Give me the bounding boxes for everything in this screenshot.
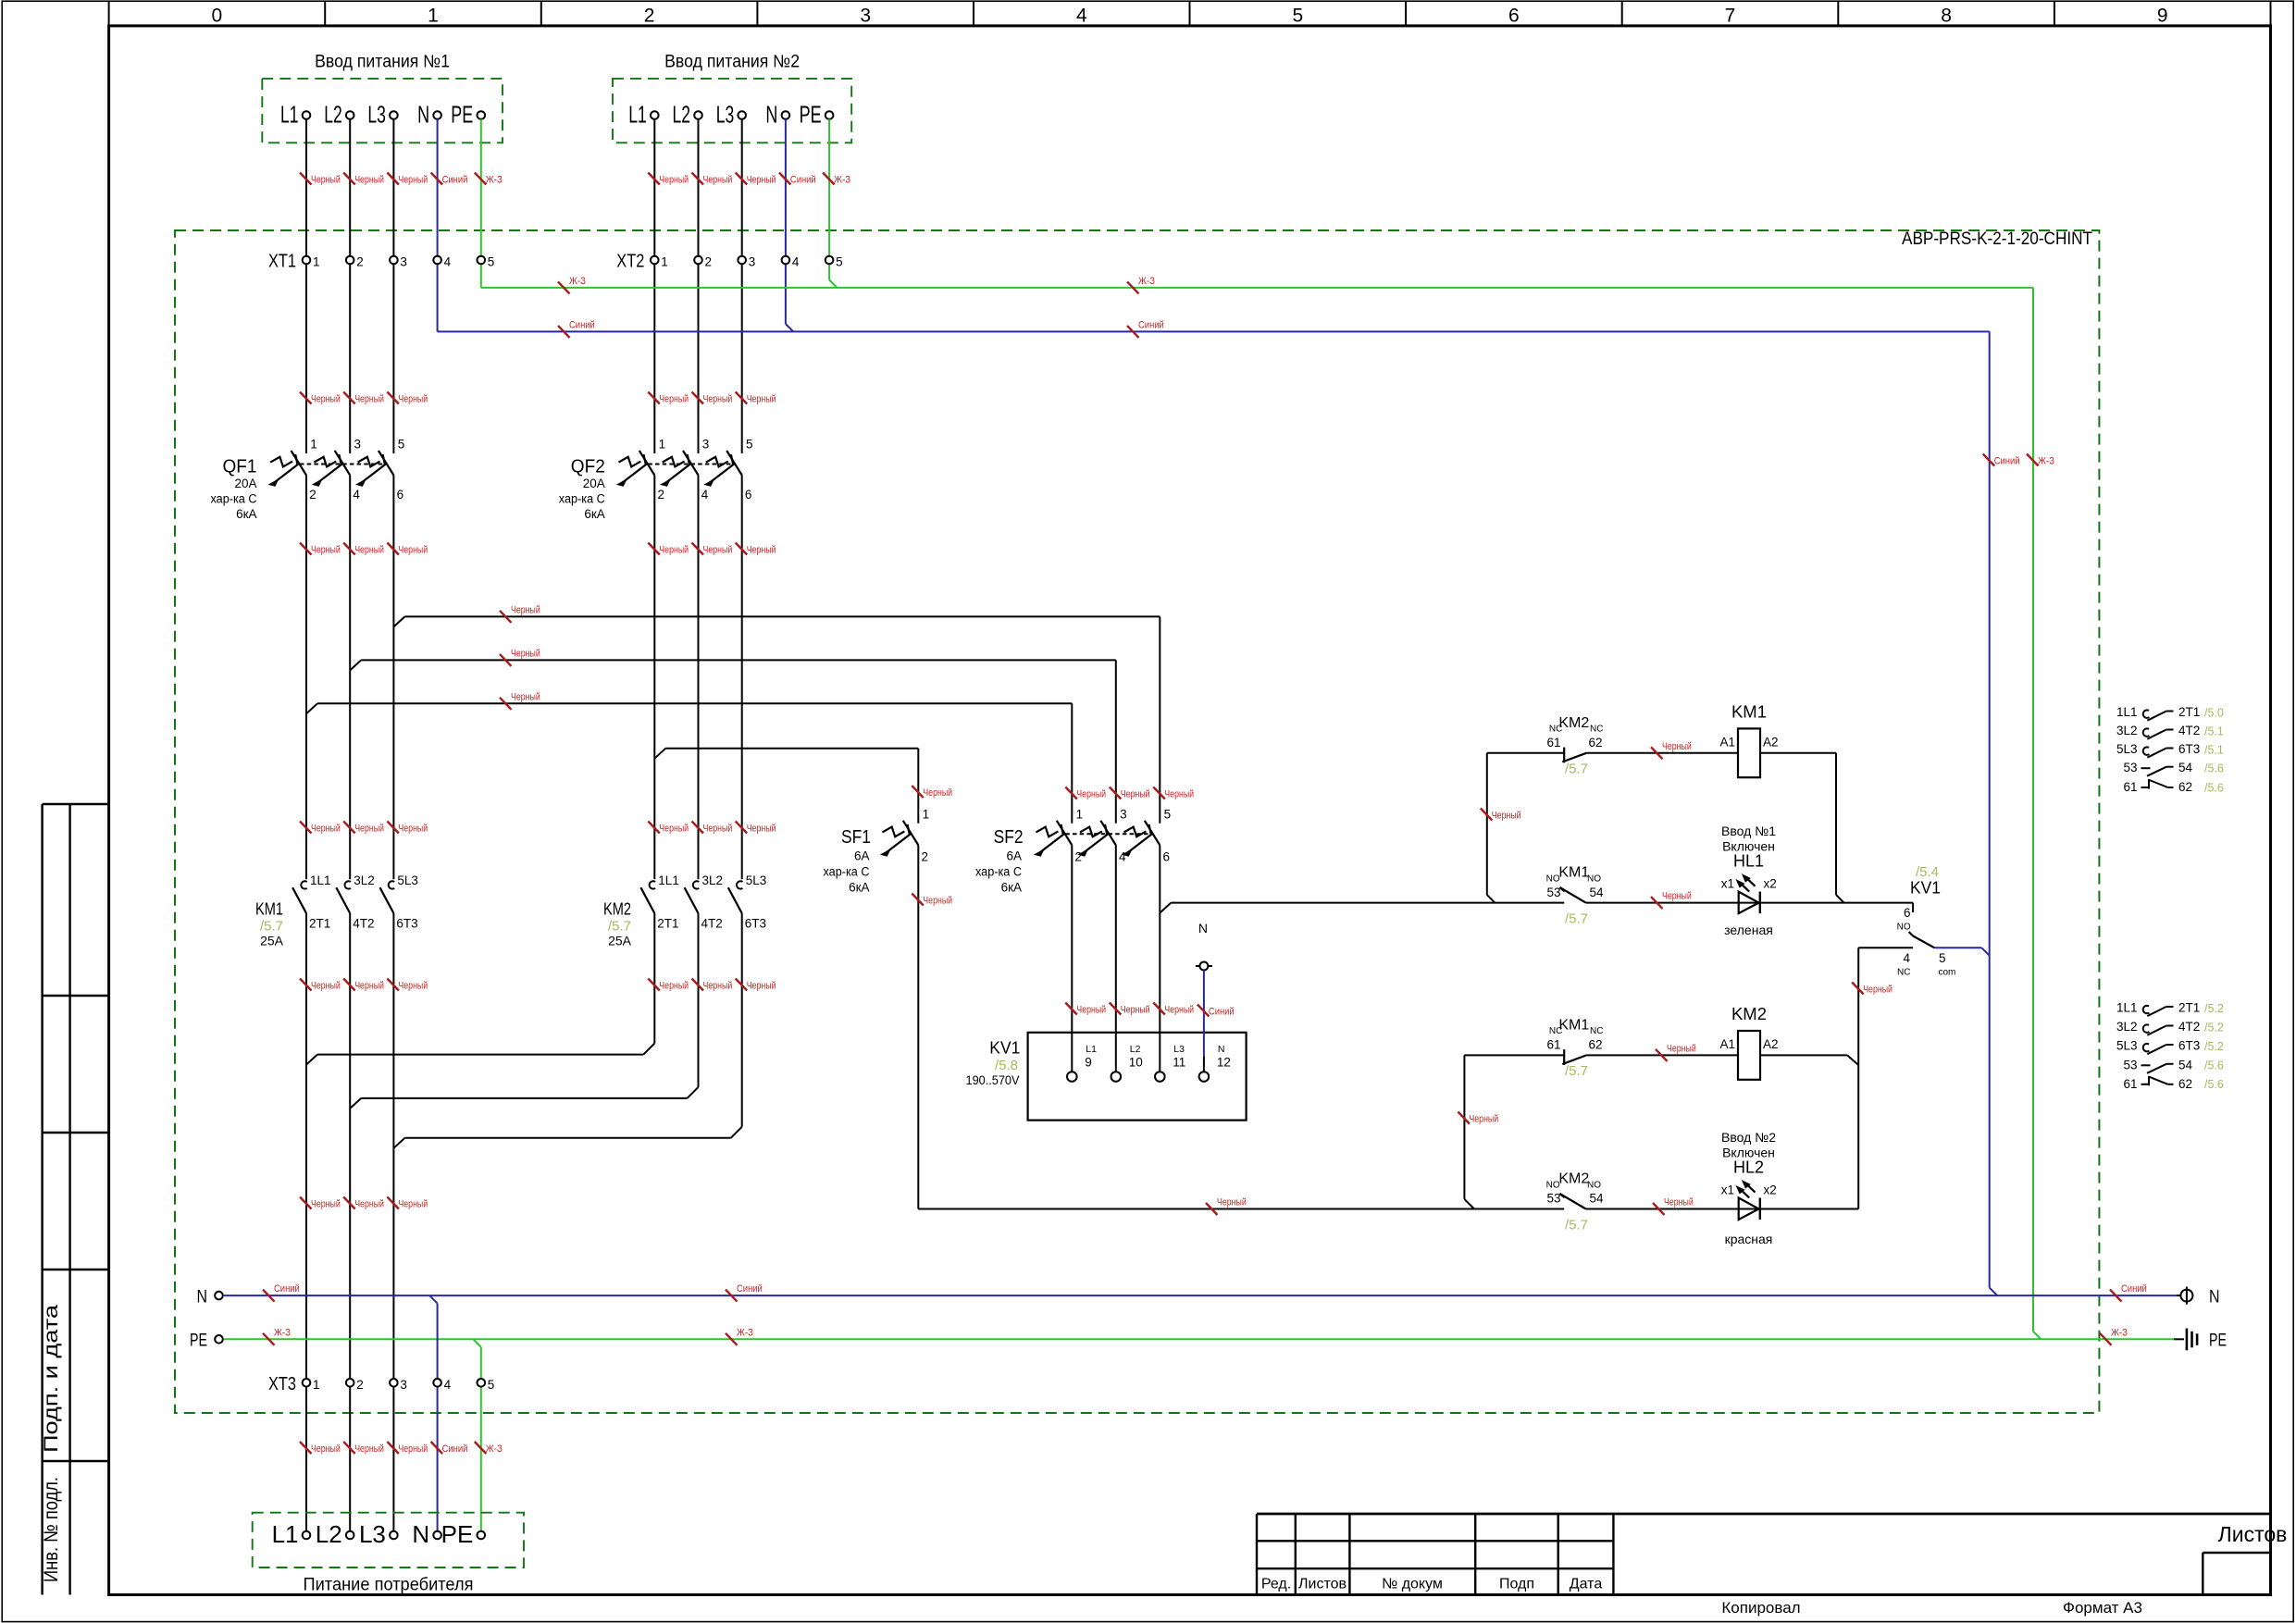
- wire label Черный: [343, 543, 384, 556]
- wire label Черный: [1651, 741, 1692, 760]
- svg-text:62: 62: [2178, 780, 2192, 794]
- consumer terminal L3: [359, 1520, 398, 1548]
- svg-text:54: 54: [2178, 1058, 2193, 1072]
- breaker SF2 pole 3: [1122, 807, 1171, 863]
- wire feed bus L2->SF2.3: [350, 660, 361, 670]
- svg-text:25А: 25А: [260, 934, 284, 948]
- labels KM1 NC 61 62: [1546, 1017, 1603, 1079]
- svg-text:Черный: Черный: [354, 981, 384, 992]
- svg-text:53: 53: [2123, 761, 2137, 774]
- svg-text:12: 12: [1217, 1056, 1231, 1070]
- svg-text:хар-ка С: хар-ка С: [975, 865, 1022, 879]
- svg-text:HL2: HL2: [1733, 1158, 1764, 1177]
- svg-text:Дата: Дата: [1570, 1577, 1603, 1592]
- cross-ref KM1 contact 1L1-2T1: [2116, 705, 2224, 721]
- svg-text:Листов: Листов: [2218, 1522, 2288, 1546]
- svg-text:9: 9: [2157, 6, 2168, 27]
- svg-text:7: 7: [1725, 6, 1736, 27]
- svg-text:5: 5: [1939, 951, 1946, 965]
- wire label Черный: [300, 1197, 341, 1210]
- svg-text:Черный: Черный: [703, 175, 733, 186]
- svg-text:3: 3: [400, 255, 407, 269]
- breaker QF1 pole 2: [312, 438, 361, 502]
- terminal strip XT1: [268, 252, 494, 272]
- svg-text:6: 6: [397, 488, 404, 502]
- wire label Черный: [1653, 1197, 1694, 1216]
- wire label Синий: [1198, 1005, 1235, 1018]
- svg-text:L3: L3: [359, 1520, 386, 1548]
- terminal Ввод питания №2-L2: [673, 101, 702, 129]
- breaker QF2 pole 3: [703, 438, 752, 502]
- wire KM1 output 3 down to consumer: [392, 913, 394, 1531]
- svg-text:5: 5: [1164, 807, 1172, 821]
- svg-text:Ж-З: Ж-З: [1138, 276, 1155, 287]
- terminal Ввод питания №1-PE: [451, 101, 485, 129]
- svg-text:4: 4: [701, 488, 709, 502]
- wire label Черный: [692, 173, 733, 186]
- wire NC drop down to HL2 row: [1857, 948, 1859, 1208]
- svg-text:6: 6: [1163, 849, 1171, 863]
- wire label Черный: [648, 173, 689, 186]
- wire label Черный: [300, 173, 341, 186]
- svg-text:Подп. и дата: Подп. и дата: [41, 1305, 62, 1453]
- breaker SF2 pole 1: [1034, 807, 1083, 863]
- svg-text:Черный: Черный: [747, 824, 776, 835]
- wire KM1 output 2 down to consumer: [349, 913, 351, 1531]
- svg-text:6: 6: [1904, 906, 1911, 920]
- svg-text:3: 3: [354, 438, 362, 452]
- svg-text:x1: x1: [1721, 877, 1734, 891]
- svg-text:Синий: Синий: [737, 1283, 763, 1295]
- wire label Черный: [1651, 891, 1692, 910]
- wire label Синий: [1127, 319, 1164, 338]
- svg-text:10: 10: [1129, 1056, 1143, 1070]
- wire label Синий: [558, 319, 595, 338]
- svg-text:Синий: Синий: [442, 1443, 468, 1455]
- svg-text:Черный: Черный: [1863, 985, 1893, 996]
- wire label Ж-З: [823, 173, 850, 186]
- wire label Ж-З: [558, 276, 586, 294]
- branch SF2 pin6 to indication row: [1160, 903, 1171, 913]
- breaker QF2 pole 1: [616, 438, 665, 502]
- svg-text:6T3: 6T3: [396, 917, 417, 931]
- wire label Черный: [736, 392, 776, 405]
- svg-text:N: N: [417, 101, 429, 129]
- wire label Черный: [1110, 1003, 1150, 1016]
- svg-text:Черный: Черный: [703, 394, 733, 405]
- svg-text:53: 53: [1546, 886, 1560, 899]
- svg-text:4: 4: [1119, 849, 1126, 863]
- svg-text:HL1: HL1: [1733, 852, 1764, 871]
- KV1 terminal L1/9: [1067, 1044, 1097, 1082]
- terminal PE right (earth bars): [2174, 1329, 2227, 1351]
- svg-text:61: 61: [2123, 780, 2137, 794]
- wire N tap (blue) down to KV1 term 12: [1203, 971, 1205, 1057]
- wire label Черный: [692, 543, 733, 556]
- svg-text:Черный: Черный: [659, 394, 689, 405]
- wire label Черный: [300, 1442, 341, 1455]
- svg-text:Черный: Черный: [659, 981, 689, 992]
- wire link bus L2 (KM1 out to KM2 out): [350, 1098, 361, 1109]
- svg-text:3: 3: [400, 1378, 407, 1392]
- cross-ref KM2 contact 1L1-2T1: [2116, 1001, 2224, 1017]
- KV1 terminal N/12: [1199, 1044, 1231, 1082]
- svg-text:2: 2: [658, 488, 665, 502]
- PE rail (green): [224, 1338, 2174, 1340]
- svg-text:3L2: 3L2: [702, 873, 724, 887]
- svg-text:Синий: Синий: [1138, 319, 1164, 330]
- svg-text:Черный: Черный: [1662, 741, 1692, 752]
- contactor KM2 main contact 1L1-2T1: [640, 873, 678, 931]
- svg-text:Ввод №2: Ввод №2: [1721, 1130, 1776, 1145]
- svg-text:2: 2: [705, 255, 713, 269]
- svg-text:Питание потребителя: Питание потребителя: [304, 1576, 474, 1595]
- wire input1 N (blue) vertical: [437, 119, 439, 332]
- svg-text:KV1: KV1: [1910, 878, 1941, 898]
- svg-text:61: 61: [1546, 1038, 1560, 1052]
- branch N rail down to XT3 (blue): [429, 1295, 438, 1304]
- svg-text:Ред.: Ред.: [1261, 1577, 1291, 1592]
- svg-text:KM2: KM2: [1731, 1004, 1767, 1023]
- svg-text:KM1: KM1: [1731, 702, 1767, 722]
- svg-text:Черный: Черный: [1667, 1043, 1696, 1054]
- wire QF1 pole 1 output: [305, 476, 307, 880]
- wire KM2 output 3 down to link bus: [741, 913, 743, 1127]
- svg-text:/5.8: /5.8: [995, 1058, 1018, 1073]
- power input box Ввод питания №1: [262, 79, 503, 142]
- svg-text:6А: 6А: [1006, 849, 1022, 863]
- wire feed bus L1(input2)->SF1: [654, 749, 665, 759]
- terminal Ввод питания №1-N: [417, 101, 441, 129]
- svg-text:54: 54: [2178, 761, 2193, 774]
- wire label Черный: [500, 691, 540, 710]
- wire label Черный: [912, 894, 952, 907]
- svg-text:Черный: Черный: [311, 981, 341, 992]
- wire label Черный: [1206, 1197, 1247, 1216]
- svg-text:NO: NO: [1546, 874, 1560, 885]
- wire PE bus horizontal (green): [481, 287, 2033, 289]
- svg-text:L3: L3: [716, 101, 735, 129]
- svg-text:QF2: QF2: [571, 457, 605, 477]
- svg-text:2T1: 2T1: [2178, 705, 2200, 719]
- svg-text:62: 62: [1588, 736, 1602, 750]
- svg-text:L3: L3: [1173, 1044, 1185, 1055]
- svg-text:Ж-З: Ж-З: [274, 1327, 291, 1338]
- wire label Черный: [300, 822, 341, 835]
- wire label Черный: [648, 392, 689, 405]
- wire PE riser right (green): [2032, 288, 2034, 1332]
- wire left drop (coil row to NO row): [1486, 753, 1488, 895]
- wire label Синий: [431, 1442, 468, 1455]
- KV1 terminal L2/10: [1111, 1044, 1143, 1082]
- svg-text:Черный: Черный: [659, 545, 689, 556]
- wire input1 L3 (black): [392, 119, 394, 453]
- wire label Черный: [648, 822, 689, 835]
- left stamp column: [43, 804, 109, 1595]
- svg-text:A2: A2: [1763, 1037, 1779, 1051]
- svg-text:Черный: Черный: [354, 1199, 384, 1210]
- svg-text:5: 5: [1292, 6, 1303, 27]
- labels KM1 NO 53 54: [1546, 865, 1604, 927]
- svg-text:Формат А3: Формат А3: [2063, 1599, 2142, 1617]
- wire label Черный: [1458, 1112, 1498, 1125]
- wire label Ж-З: [726, 1327, 753, 1345]
- svg-text:L2: L2: [1130, 1044, 1141, 1055]
- wire label Черный: [387, 979, 428, 992]
- wire label Ж-З: [2100, 1327, 2128, 1345]
- svg-text:2: 2: [356, 1378, 364, 1392]
- svg-text:1: 1: [661, 255, 668, 269]
- relay contact KV1 (6 NO / 4 NC / 5 com): [1909, 932, 1935, 948]
- consumer terminal L2: [316, 1520, 354, 1548]
- svg-text:/5.2: /5.2: [2204, 1002, 2224, 1015]
- cross-ref KM2 contact 61-62: [2123, 1076, 2223, 1091]
- svg-text:Синий: Синий: [790, 175, 816, 186]
- svg-text:KV1: KV1: [989, 1038, 1020, 1058]
- svg-text:Черный: Черный: [398, 175, 428, 186]
- svg-text:Синий: Синий: [1994, 456, 2020, 467]
- wire label Черный: [1153, 787, 1194, 800]
- svg-text:1L1: 1L1: [2116, 705, 2138, 719]
- wire label Черный: [387, 1197, 428, 1210]
- labels KM2 NC 61 62: [1546, 715, 1603, 777]
- svg-text:N: N: [197, 1287, 208, 1307]
- svg-text:5L3: 5L3: [746, 873, 767, 887]
- svg-text:Черный: Черный: [311, 1443, 341, 1455]
- svg-text:Ж-З: Ж-З: [486, 1443, 503, 1455]
- labels KV1 device: [966, 1038, 1021, 1088]
- svg-text:Черный: Черный: [354, 394, 384, 405]
- consumer terminal N: [412, 1520, 441, 1548]
- svg-text:Черный: Черный: [311, 175, 341, 186]
- svg-text:6T3: 6T3: [2178, 742, 2200, 756]
- svg-text:L2: L2: [316, 1520, 342, 1548]
- svg-text:1: 1: [313, 1378, 320, 1392]
- svg-text:хар-ка С: хар-ка С: [559, 492, 605, 506]
- wire label Черный: [1065, 1003, 1106, 1016]
- wire label Черный: [736, 173, 776, 186]
- svg-text:NC: NC: [1897, 968, 1910, 978]
- wire label Синий: [2110, 1283, 2147, 1302]
- svg-text:6кА: 6кА: [236, 507, 256, 521]
- enclosure АВР-PRS-K-2-1-20-CHINT (dashed): [175, 230, 2099, 1413]
- svg-text:Ввод питания №1: Ввод питания №1: [315, 53, 450, 72]
- svg-text:Черный: Черный: [398, 824, 428, 835]
- wire QF2 pole 3 output: [741, 476, 743, 880]
- terminal Ввод питания №2-PE: [800, 101, 834, 129]
- wire label Черный: [343, 173, 384, 186]
- svg-text:KM2: KM2: [1558, 715, 1589, 731]
- svg-text:1L1: 1L1: [658, 873, 679, 887]
- control breaker SF2 (3-pole): [1065, 833, 1153, 835]
- wire label Ж-З: [475, 173, 503, 186]
- wire KM2 output 2 down to link bus: [698, 913, 700, 1087]
- labels KV1 contact: [1897, 864, 1956, 978]
- svg-text:5L3: 5L3: [2116, 1039, 2138, 1053]
- breaker SF2 pole 2: [1077, 807, 1126, 863]
- svg-text:53: 53: [1546, 1192, 1560, 1206]
- consumer terminal L1: [272, 1520, 311, 1548]
- svg-text:Черный: Черный: [1217, 1197, 1247, 1208]
- svg-text:L3: L3: [367, 101, 386, 129]
- cross-ref KM2 contact 5L3-6T3: [2116, 1039, 2224, 1055]
- svg-text:/5.6: /5.6: [2204, 1078, 2224, 1091]
- svg-text:Черный: Черный: [354, 1443, 384, 1455]
- label KM1: [255, 898, 284, 948]
- svg-text:6: 6: [1508, 6, 1520, 27]
- svg-text:L1: L1: [272, 1520, 299, 1548]
- wire label Черный: [300, 392, 341, 405]
- contactor KM1 main contact 1L1-2T1: [292, 873, 330, 931]
- svg-text:4: 4: [353, 488, 360, 502]
- svg-text:54: 54: [1589, 886, 1604, 899]
- aux contact KM2 NO 53-54: [1559, 1194, 1585, 1209]
- neutral tap point N for KV1: [1196, 921, 1212, 971]
- svg-text:2: 2: [356, 255, 364, 269]
- svg-text:2: 2: [309, 488, 316, 502]
- terminal Ввод питания №2-N: [765, 101, 789, 129]
- coil KM1: [1719, 702, 1778, 778]
- wire SF1 output down and across to HL2 row: [917, 845, 919, 1208]
- cross-ref KM2 contact 53-54: [2123, 1058, 2223, 1073]
- lamp HL2 (red LED): [1735, 1179, 1760, 1220]
- svg-text:L2: L2: [673, 101, 691, 129]
- svg-text:1: 1: [313, 255, 320, 269]
- svg-text:62: 62: [2178, 1077, 2192, 1091]
- wire input1 L2 (black): [349, 119, 351, 453]
- wire label Черный: [648, 543, 689, 556]
- svg-text:53: 53: [2123, 1058, 2137, 1072]
- svg-text:KM1: KM1: [1558, 865, 1589, 881]
- svg-text:x2: x2: [1764, 877, 1777, 891]
- svg-text:Черный: Черный: [1164, 789, 1194, 800]
- svg-text:Ввод питания №2: Ввод питания №2: [664, 53, 800, 72]
- wire input2 L2 (black): [698, 119, 700, 453]
- wire label Черный: [500, 604, 540, 623]
- svg-text:/5.1: /5.1: [2204, 744, 2224, 757]
- title block texts: [1261, 1522, 2288, 1617]
- svg-text:Синий: Синий: [2121, 1283, 2147, 1295]
- svg-text:NC: NC: [1549, 1026, 1562, 1036]
- svg-text:20А: 20А: [583, 477, 605, 490]
- wire label Синий: [431, 173, 468, 186]
- wire N riser right (blue): [1989, 331, 1991, 1287]
- svg-text:5: 5: [398, 438, 405, 452]
- svg-text:1: 1: [1076, 807, 1084, 821]
- wire label Черный: [300, 979, 341, 992]
- svg-text:0: 0: [212, 6, 223, 27]
- svg-text:L1: L1: [280, 101, 299, 129]
- svg-text:3L2: 3L2: [2116, 724, 2138, 737]
- svg-text:61: 61: [1546, 736, 1560, 750]
- svg-text:190..570V: 190..570V: [966, 1072, 1021, 1087]
- contactor KM1 main contact 3L2-4T2: [336, 873, 374, 931]
- svg-text:4: 4: [1903, 951, 1910, 965]
- control breaker SF1 (1-pole): [880, 807, 929, 863]
- terminal N right (circle symbol): [2177, 1287, 2220, 1307]
- svg-text:Черный: Черный: [747, 981, 776, 992]
- svg-text:1: 1: [659, 438, 666, 452]
- wire right drop (A2 to HL1 row): [1835, 753, 1837, 895]
- label SF2: [975, 827, 1024, 895]
- terminal N left: [197, 1287, 223, 1307]
- svg-text:N: N: [765, 101, 777, 129]
- wire QF2 pole 2 output: [698, 476, 700, 880]
- wire KM1 coil row: [1487, 752, 1564, 754]
- labels HL2: [1721, 1130, 1777, 1246]
- wire label Ж-З: [1127, 276, 1155, 294]
- svg-text:A1: A1: [1719, 735, 1735, 749]
- svg-text:4: 4: [792, 255, 800, 269]
- wire feed bus L3->SF2.5: [393, 616, 404, 626]
- svg-text:XT2: XT2: [616, 252, 644, 272]
- svg-text:6кА: 6кА: [584, 507, 604, 521]
- svg-text:Черный: Черный: [311, 1199, 341, 1210]
- label KM2: [603, 898, 632, 948]
- svg-text:Черный: Черный: [511, 648, 540, 659]
- terminal Ввод питания №2-L1: [628, 101, 658, 129]
- svg-text:Черный: Черный: [1662, 891, 1692, 902]
- wire KM2 output 1 down to link bus: [653, 913, 655, 1044]
- cross-ref KM1 contact 3L2-4T2: [2116, 724, 2224, 739]
- svg-text:L1: L1: [1086, 1044, 1097, 1055]
- wire indication row 1 (to KM1 NO and HL1): [1171, 902, 1564, 904]
- svg-text:61: 61: [2123, 1077, 2137, 1091]
- breaker QF1 pole 1: [268, 438, 317, 502]
- wire label Ж-З: [475, 1442, 503, 1455]
- svg-text:XT1: XT1: [268, 252, 296, 272]
- wire label Черный: [1065, 787, 1106, 800]
- wire SF2 outputs down to KV1: [1071, 845, 1073, 1072]
- wire label Черный: [343, 1197, 384, 1210]
- svg-text:Копировал: Копировал: [1721, 1599, 1800, 1617]
- wire label Черный: [692, 822, 733, 835]
- wire label Черный: [1153, 1003, 1194, 1016]
- svg-text:x2: x2: [1764, 1183, 1777, 1196]
- terminal Ввод питания №1-L2: [324, 101, 354, 129]
- wire label Черный: [912, 786, 952, 799]
- wire N bus horizontal (blue): [438, 330, 1990, 332]
- svg-text:4: 4: [444, 255, 452, 269]
- svg-text:6кА: 6кА: [849, 881, 869, 895]
- svg-text:5: 5: [488, 1378, 495, 1392]
- wire label Черный: [736, 979, 776, 992]
- svg-text:4: 4: [1076, 6, 1087, 27]
- svg-text:красная: красная: [1725, 1232, 1773, 1246]
- terminal PE left: [190, 1332, 223, 1351]
- wire KM2 coil row: [1464, 1054, 1564, 1056]
- wire KV1 com (blue) to N riser: [1934, 947, 1981, 948]
- svg-text:KM1: KM1: [255, 898, 283, 918]
- svg-text:Черный: Черный: [703, 824, 733, 835]
- wire KV1 pin6 stub: [1912, 903, 1914, 913]
- svg-text:Черный: Черный: [511, 604, 540, 615]
- svg-text:NC: NC: [1590, 1026, 1603, 1036]
- cross-ref KM1 contact 53-54: [2123, 761, 2223, 776]
- wire KM1 output 1 down to consumer: [305, 913, 307, 1531]
- svg-text:АВР-PRS-K-2-1-20-CHINT: АВР-PRS-K-2-1-20-CHINT: [1902, 229, 2092, 249]
- svg-text:KM2: KM2: [1558, 1171, 1589, 1186]
- svg-text:4T2: 4T2: [2178, 1020, 2200, 1034]
- label SF1: [824, 827, 872, 895]
- svg-text:2T1: 2T1: [309, 917, 330, 931]
- wire label Черный: [1656, 1043, 1696, 1061]
- svg-text:2T1: 2T1: [657, 917, 678, 931]
- wire QF1 pole 2 output: [349, 476, 351, 880]
- svg-text:Листов: Листов: [1298, 1577, 1347, 1592]
- wire label Черный: [387, 822, 428, 835]
- wire link bus L3 (KM1 out to KM2 out): [393, 1138, 404, 1148]
